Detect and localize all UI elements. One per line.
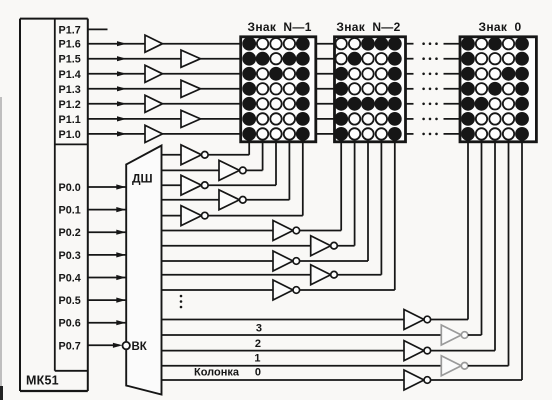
svg-text:МК51: МК51 bbox=[26, 374, 59, 388]
wire inverter DD19 to display column 0 bbox=[431, 142, 468, 320]
svg-text:P1.2: P1.2 bbox=[59, 99, 81, 111]
wire inverter DD14 to display column 0 bbox=[300, 142, 342, 231]
wire row 2: HG1 to HG2 bbox=[316, 58, 335, 60]
wire inverter DD13 to display column 4 bbox=[208, 142, 303, 216]
display HG2 Знак N—2 (5x7 LED matrix) bbox=[334, 20, 405, 142]
svg-text:P1.4: P1.4 bbox=[59, 69, 81, 81]
wire inverter DD23 to display column 4 bbox=[431, 142, 522, 380]
svg-text:P1.5: P1.5 bbox=[59, 54, 81, 66]
wire P0.5 to decoder input bbox=[88, 298, 126, 303]
wire buffer DD7 output to display HG1 row 7 bbox=[163, 133, 241, 135]
inverter DD19 (column driver) bbox=[404, 310, 431, 330]
wire row 3: HG1 to HG2 bbox=[316, 73, 335, 75]
wire inverter DD21 to display column 2 bbox=[431, 142, 495, 351]
wire P0.7 to node ВК bbox=[88, 343, 123, 348]
node: omitted outputs ellipsis bbox=[180, 295, 183, 309]
wire row 5: HG1 to HG2 bbox=[316, 103, 335, 105]
wire decoder output to inverter DD12 bbox=[162, 199, 220, 201]
wire buffer DD6 output to display HG1 row 6 bbox=[201, 118, 241, 120]
wire decoder output to inverter DD9 bbox=[162, 154, 182, 156]
buffer DD1 row 1 bbox=[145, 35, 163, 52]
svg-text:P1.6: P1.6 bbox=[59, 39, 81, 51]
wire inverter DD22 to display column 3 bbox=[468, 142, 509, 366]
wire inverter DD9 to display column 0 bbox=[208, 142, 249, 155]
buffer DD2 row 2 bbox=[181, 50, 201, 67]
inverter DD17 (column driver) bbox=[311, 265, 338, 285]
buffer DD7 row 7 bbox=[145, 125, 163, 142]
wire P1.4 to row 3 buffer bbox=[88, 71, 145, 76]
wire decoder output to inverter DD23 bbox=[162, 379, 405, 381]
wire P0.0 to decoder input bbox=[88, 184, 126, 189]
svg-text:P0.7: P0.7 bbox=[59, 340, 81, 352]
wire buffer DD5 output to display HG1 row 5 bbox=[163, 103, 241, 105]
svg-text:P0.2: P0.2 bbox=[59, 227, 81, 239]
wire row 1: HG2 to HG3 (dotted continuation) bbox=[406, 42, 461, 45]
inverter DD11 (column driver) bbox=[181, 175, 208, 195]
wire P0.3 to decoder input bbox=[88, 252, 126, 257]
wire inverter DD16 to display column 2 bbox=[300, 142, 368, 261]
svg-text:1: 1 bbox=[254, 353, 260, 365]
wire decoder output to inverter DD11 bbox=[162, 184, 182, 186]
wire P0.2 to decoder input bbox=[88, 230, 126, 235]
wire row 7: HG1 to HG2 bbox=[316, 133, 335, 135]
wire P1.0 to row 7 buffer bbox=[88, 131, 145, 136]
svg-text:0: 0 bbox=[255, 366, 261, 378]
inverter DD15 (column driver) bbox=[311, 236, 338, 256]
wire decoder output to inverter DD17 bbox=[162, 274, 311, 276]
inverter DD12 (column driver) bbox=[219, 190, 246, 210]
svg-text:P0.5: P0.5 bbox=[59, 295, 81, 307]
inverter DD20 (column driver , ghost) bbox=[441, 325, 468, 345]
wire inverter DD12 to display column 3 bbox=[246, 142, 289, 200]
wire row 4: HG2 to HG3 (dotted continuation) bbox=[406, 88, 461, 91]
wire inverter DD15 to display column 1 bbox=[337, 142, 354, 246]
svg-text:P1.0: P1.0 bbox=[59, 129, 81, 141]
wire buffer DD4 output to display HG1 row 4 bbox=[201, 88, 241, 90]
wire row 6: HG2 to HG3 (dotted continuation) bbox=[406, 118, 461, 121]
svg-text:P1.1: P1.1 bbox=[59, 114, 81, 126]
wire row 2: HG2 to HG3 (dotted continuation) bbox=[406, 57, 461, 60]
inverter DD18 (column driver) bbox=[273, 280, 300, 300]
svg-text:P0.1: P0.1 bbox=[59, 205, 81, 217]
svg-text:ДШ: ДШ bbox=[132, 171, 153, 185]
svg-text:P0.6: P0.6 bbox=[59, 318, 81, 330]
wire inverter DD11 to display column 2 bbox=[208, 142, 276, 185]
wire decoder output to inverter DD14 bbox=[162, 230, 274, 232]
net label Колонка 0 bbox=[194, 366, 261, 378]
wire P1.2 to row 5 buffer bbox=[88, 101, 145, 106]
inverter DD21 (column driver) bbox=[404, 341, 431, 361]
wire row 1: HG1 to HG2 bbox=[316, 43, 335, 45]
svg-text:Знак 0: Знак 0 bbox=[479, 20, 522, 34]
svg-text:P1.3: P1.3 bbox=[59, 84, 81, 96]
wire decoder output to inverter DD18 bbox=[162, 289, 274, 291]
svg-text:2: 2 bbox=[255, 338, 261, 350]
wire row 4: HG1 to HG2 bbox=[316, 88, 335, 90]
wire P1.7 stub bbox=[88, 28, 108, 30]
node ВК (enable input) bbox=[123, 341, 148, 353]
decoder DD8 ДШ bbox=[126, 146, 161, 395]
wire buffer DD2 output to display HG1 row 2 bbox=[201, 58, 241, 60]
wire P0.1 to decoder input bbox=[88, 207, 126, 212]
wire row 6: HG1 to HG2 bbox=[316, 118, 335, 120]
wire decoder output to inverter DD16 bbox=[162, 260, 274, 262]
inverter DD14 (column driver) bbox=[273, 221, 300, 241]
wire decoder output to inverter DD19 bbox=[162, 319, 405, 321]
display HG3 Знак 0 (5x7 LED matrix) bbox=[460, 20, 536, 142]
wire row 3: HG2 to HG3 (dotted continuation) bbox=[406, 73, 461, 76]
buffer DD3 row 3 bbox=[145, 65, 163, 82]
inverter DD22 (column driver , ghost) bbox=[441, 356, 468, 376]
wire inverter DD17 to display column 3 bbox=[337, 142, 381, 275]
wire P0.4 to decoder input bbox=[88, 275, 126, 280]
svg-text:Знак N—2: Знак N—2 bbox=[336, 20, 400, 34]
wire inverter DD18 to display column 4 bbox=[300, 142, 395, 290]
wire P0.6 to decoder input bbox=[88, 320, 126, 325]
inverter DD9 (column driver) bbox=[181, 145, 208, 165]
wire decoder output to inverter DD13 bbox=[162, 215, 182, 217]
wire row 7: HG2 to HG3 (dotted continuation) bbox=[406, 133, 461, 136]
svg-text:3: 3 bbox=[256, 323, 262, 335]
buffer DD6 row 6 bbox=[181, 110, 201, 127]
display HG1 Знак N—1 (5x7 LED matrix) bbox=[241, 20, 316, 142]
microcontroller U1 MK51 bbox=[20, 19, 88, 391]
wire decoder output to inverter DD22 bbox=[162, 365, 442, 367]
inverter DD23 (column driver) bbox=[404, 370, 431, 390]
wire P1.6 to row 1 buffer bbox=[88, 41, 145, 46]
wire buffer DD3 output to display HG1 row 3 bbox=[163, 73, 241, 75]
inverter DD16 (column driver) bbox=[273, 251, 300, 271]
wire decoder output to inverter DD15 bbox=[162, 245, 311, 247]
svg-text:P0.3: P0.3 bbox=[59, 250, 81, 262]
wire row 5: HG2 to HG3 (dotted continuation) bbox=[406, 103, 461, 106]
wire buffer DD1 output to display HG1 row 1 bbox=[163, 43, 241, 45]
svg-text:P0.0: P0.0 bbox=[59, 182, 81, 194]
wire inverter DD10 to display column 1 bbox=[246, 142, 263, 171]
wire decoder output to inverter DD21 bbox=[162, 350, 405, 352]
wire inverter DD20 to display column 1 bbox=[468, 142, 482, 335]
buffer DD4 row 4 bbox=[181, 80, 201, 97]
wire decoder output to inverter DD20 bbox=[162, 334, 442, 336]
inverter DD13 (column driver) bbox=[181, 206, 208, 226]
inverter DD10 (column driver) bbox=[219, 160, 246, 180]
svg-text:P1.7: P1.7 bbox=[59, 24, 81, 36]
wire decoder output to inverter DD10 bbox=[162, 169, 220, 171]
buffer DD5 row 5 bbox=[145, 95, 163, 112]
svg-text:P0.4: P0.4 bbox=[59, 273, 81, 285]
wire P1.3 to row 4 buffer bbox=[88, 86, 181, 91]
wire P1.5 to row 2 buffer bbox=[88, 56, 181, 61]
svg-text:ВК: ВК bbox=[132, 341, 148, 353]
wire P1.1 to row 6 buffer bbox=[88, 116, 181, 121]
svg-text:Колонка: Колонка bbox=[194, 366, 240, 378]
svg-text:Знак N—1: Знак N—1 bbox=[248, 20, 312, 34]
